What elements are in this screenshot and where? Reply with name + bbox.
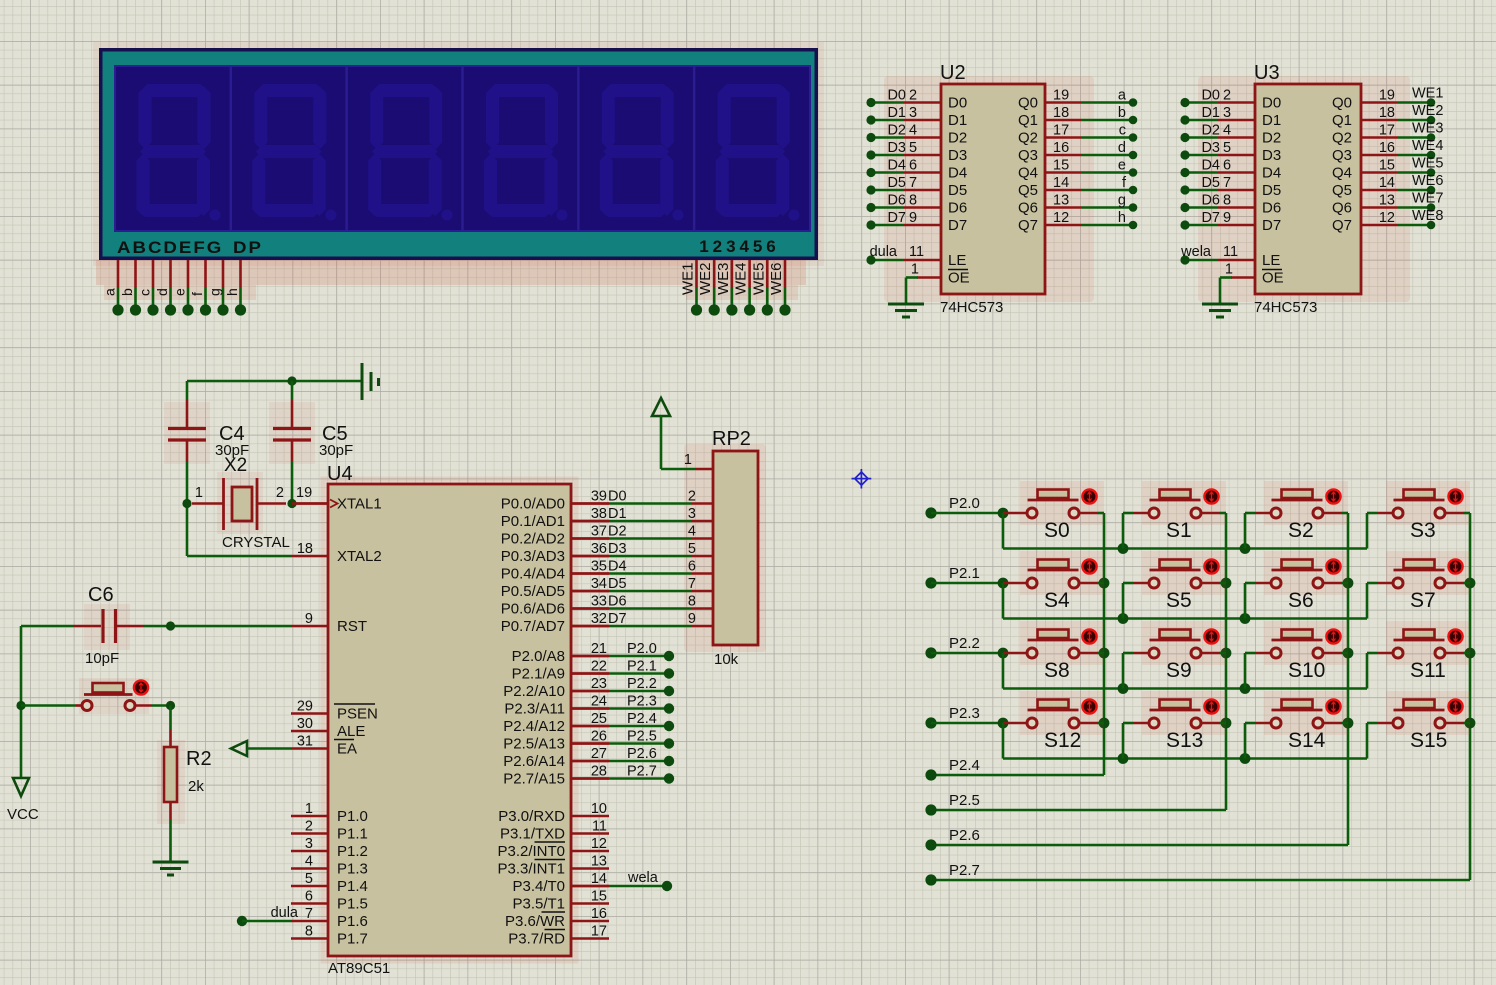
svg-text:1: 1 [305,801,313,817]
wire bus D5 : U4 P0.5 to RP2 pin 7 [571,590,609,593]
svg-text:RST: RST [337,618,367,635]
display common pin WE1 [695,260,698,288]
latch U3 74HC573 [1255,84,1361,294]
push button S13 [1142,691,1226,735]
svg-text:wela: wela [627,870,659,886]
capacitor C4 30pF [186,381,189,400]
junction keypad row 0 riser [1240,543,1251,554]
svg-text:D7: D7 [1201,210,1220,226]
ground symbol under U3 [1202,303,1238,306]
display segment pin f [204,260,207,288]
junction keypad row 3 riser [1240,753,1251,764]
U3 pin Q2 (pin 17) [1361,136,1397,139]
svg-text:P1.7: P1.7 [337,931,368,948]
svg-text:a: a [102,288,118,296]
push button S11 [1386,621,1470,665]
push button S3 [1386,481,1470,525]
junction keypad column 1 [1221,718,1232,729]
push button S14 [1264,691,1348,735]
svg-text:7: 7 [688,576,696,592]
svg-text:13: 13 [1379,193,1395,209]
U2 pin Q1 (pin 18) [1045,119,1081,122]
svg-text:WE3: WE3 [715,262,732,295]
display common pin WE4 [748,260,751,288]
svg-text:P0.0/AD0: P0.0/AD0 [501,496,565,513]
display digit 6 ghost segments [716,84,800,221]
svg-text:WE7: WE7 [1412,191,1443,207]
U2 pin D2 (pin 4) with net D2 [904,136,941,139]
U4 pin P1.0 (1) [291,815,328,818]
svg-text:D0: D0 [1262,95,1281,112]
svg-text:D1: D1 [948,112,967,129]
capacitor C6 10pF [73,625,101,628]
svg-text:P3.1/TXD: P3.1/TXD [500,826,565,843]
svg-text:WE1: WE1 [680,262,697,295]
svg-text:D4: D4 [887,158,906,174]
resistor pack RP2 10k [713,451,758,645]
svg-text:26: 26 [591,729,607,745]
svg-text:11: 11 [909,244,924,260]
junction keypad column 3 [1465,718,1476,729]
svg-text:WE2: WE2 [697,262,714,295]
U3 pin D0 (pin 2) with net D0 [1218,101,1255,104]
U4 pin P0.6/AD6 (33) [571,607,609,610]
svg-text:6: 6 [766,237,775,256]
U4 pin P1.2 (3) [291,850,328,853]
wire bus D3 : U4 P0.3 to RP2 pin 5 [571,555,609,558]
wire keypad column 0 to P2.4 [1103,513,1106,775]
U4 pin P1.4 (5) [291,885,328,888]
U2 pin Q5 (pin 14) [1045,189,1081,192]
svg-text:D2: D2 [887,123,906,139]
U4 pin P2.3/A11 (24) [571,707,609,710]
U2 pin Q0 (pin 19) [1045,101,1081,104]
U3 pin Q1 (pin 18) [1361,119,1397,122]
U2 pin Q6 (pin 13) [1045,206,1081,209]
svg-text:P2.2: P2.2 [627,676,657,692]
svg-text:4: 4 [305,854,313,870]
svg-text:XTAL2: XTAL2 [337,548,382,565]
wire bus D0 : U4 P0.0 to RP2 pin 2 [571,502,609,505]
svg-text:WE5: WE5 [750,262,767,295]
wire net P2.3 at U4 [571,707,609,710]
svg-text:5: 5 [753,237,762,256]
U2 pin Q2 (pin 17) [1045,136,1081,139]
svg-text:a: a [1118,88,1127,104]
svg-text:WE1: WE1 [1412,86,1443,102]
svg-text:P1.5: P1.5 [337,896,368,913]
svg-text:P0.1/AD1: P0.1/AD1 [501,513,565,530]
svg-text:38: 38 [591,506,607,522]
svg-text:h: h [224,288,240,296]
input terminal arrow on EA [231,741,247,756]
power terminal arrow (pin 1) [652,398,670,416]
svg-text:P0.2/AD2: P0.2/AD2 [501,531,565,548]
svg-text:5: 5 [909,140,917,156]
svg-text:RP2: RP2 [712,428,751,450]
halo U4 [323,479,576,961]
wire keypad row 3 [931,722,1003,725]
svg-text:1: 1 [911,262,919,278]
junction keypad column 1 [1221,648,1232,659]
wire dula to P1.6 [237,916,247,926]
U4 pin P3.6/WR (16) [571,920,609,923]
svg-text:9: 9 [688,611,696,627]
svg-text:CRYSTAL: CRYSTAL [222,534,290,551]
junction reset button left [16,701,25,710]
svg-text:D2: D2 [1262,130,1281,147]
svg-text:P2.0: P2.0 [627,641,657,657]
svg-text:10k: 10k [714,651,739,668]
svg-text:3: 3 [726,237,735,256]
svg-text:7: 7 [1223,175,1231,191]
svg-text:Q0: Q0 [1332,95,1352,112]
U2 pin D0 (pin 2) with net D0 [904,101,941,104]
svg-text:b: b [1118,105,1126,121]
U2 pin Q3 (pin 16) [1045,154,1081,157]
push button S2 [1264,481,1348,525]
svg-text:D0: D0 [948,95,967,112]
display segment pin d [169,260,172,288]
wire net P2.7 at U4 [571,777,609,780]
U2 pin Q4 (pin 15) [1045,171,1081,174]
wire keypad column 3 to P2.7 [1469,513,1472,880]
origin marker [852,469,872,489]
svg-text:Q1: Q1 [1332,112,1352,129]
display digit 4 ghost segments [484,84,568,221]
svg-text:P2.1/A9: P2.1/A9 [512,666,565,683]
display digit separator 2 [345,67,347,230]
svg-text:P0.3/AD3: P0.3/AD3 [501,548,565,565]
svg-text:12: 12 [1053,210,1069,226]
svg-text:Q7: Q7 [1018,217,1038,234]
svg-text:18: 18 [1053,105,1069,121]
svg-text:Q2: Q2 [1332,130,1352,147]
U4 pin EA (31) [291,747,328,750]
svg-text:D6: D6 [608,594,627,610]
svg-text:2: 2 [305,819,313,835]
svg-text:g: g [1118,193,1126,209]
power terminal VCC [13,778,29,796]
wire crystal top rail [187,380,362,383]
display segment pin g [222,260,225,288]
svg-text:PSEN: PSEN [337,706,378,723]
U4 pin RST (9) [291,625,328,628]
wire keypad row 0 [931,512,1003,515]
svg-text:4: 4 [739,237,749,256]
wire EA [247,747,291,750]
svg-text:S15: S15 [1410,729,1447,752]
svg-text:6: 6 [688,559,696,575]
svg-text:13: 13 [591,854,607,870]
svg-text:c: c [1119,123,1126,139]
U3 pin D3 (pin 5) with net D3 [1218,154,1255,157]
svg-text:ABCDEFG: ABCDEFG [117,238,223,257]
svg-text:34: 34 [591,576,607,592]
svg-text:D6: D6 [948,200,967,217]
svg-text:37: 37 [591,524,607,540]
wire RP2 pin 1 [660,416,663,469]
wire net P2.6 at U4 [571,760,609,763]
svg-text:Q5: Q5 [1332,182,1352,199]
svg-text:8: 8 [909,193,917,209]
display digit separator 1 [230,67,232,230]
svg-text:Q3: Q3 [1332,147,1352,164]
U2 pin D4 (pin 6) with net D4 [904,171,941,174]
U3 pin Q0 (pin 19) [1361,101,1397,104]
svg-text:2: 2 [1223,88,1231,104]
push button S7 [1386,551,1470,595]
svg-text:36: 36 [591,541,607,557]
wire bus D2 : U4 P0.2 to RP2 pin 4 [571,537,609,540]
svg-text:2k: 2k [188,778,204,795]
svg-text:P2.4/A12: P2.4/A12 [503,718,565,735]
svg-text:2: 2 [713,237,722,256]
svg-text:D2: D2 [1201,123,1220,139]
display segment pin b [134,260,137,288]
svg-text:D6: D6 [1201,193,1220,209]
svg-text:Q6: Q6 [1018,200,1038,217]
svg-text:Q7: Q7 [1332,217,1352,234]
svg-text:15: 15 [591,889,607,905]
svg-text:D5: D5 [1262,182,1281,199]
svg-text:1: 1 [195,485,203,501]
svg-text:16: 16 [591,906,607,922]
svg-text:c: c [137,289,153,296]
svg-text:4: 4 [1223,123,1231,139]
svg-text:S10: S10 [1288,659,1325,682]
junction keypad column 3 [1465,578,1476,589]
U3 pin D2 (pin 4) with net D2 [1218,136,1255,139]
ground symbol crystal (rotated) [361,363,364,400]
U3 pin Q4 (pin 15) [1361,171,1397,174]
svg-text:P1.0: P1.0 [337,808,368,825]
svg-text:e: e [172,288,188,296]
junction keypad column 2 [1343,578,1354,589]
display common pin WE6 [784,260,787,288]
junction keypad column 3 [1465,648,1476,659]
U4 pin P3.1/TXD (11) [571,832,609,835]
svg-text:WE5: WE5 [1412,156,1443,172]
svg-text:S0: S0 [1044,519,1070,542]
svg-text:U2: U2 [940,62,966,84]
terminal P2.7 [925,874,936,885]
U4 pin P3.2/INT0 (12) [571,850,609,853]
push button S15 [1386,691,1470,735]
svg-text:D4: D4 [1262,165,1281,182]
svg-text:14: 14 [1053,175,1069,191]
svg-text:16: 16 [1379,140,1395,156]
wire bus D1 : U4 P0.1 to RP2 pin 3 [571,520,609,523]
push button S9 [1142,621,1226,665]
display digit separator 5 [693,67,695,230]
wire RST rail [144,625,291,628]
svg-text:2: 2 [909,88,917,104]
svg-text:16: 16 [1053,140,1069,156]
junction XTAL1 node left [182,499,191,508]
svg-text:19: 19 [1053,88,1069,104]
svg-text:P2.6/A14: P2.6/A14 [503,753,565,770]
svg-text:14: 14 [1379,175,1395,191]
svg-text:15: 15 [1053,158,1069,174]
svg-text:74HC573: 74HC573 [940,299,1003,316]
U4 pin P3.3/INT1 (13) [571,867,609,870]
svg-text:D5: D5 [608,576,627,592]
svg-text:P2.3: P2.3 [627,694,657,710]
U4 pin XTAL1 (19) [291,502,328,505]
svg-text:Q4: Q4 [1018,165,1038,182]
wire XTAL2 [187,555,291,558]
push button S10 [1264,621,1348,665]
svg-text:D4: D4 [1201,158,1220,174]
svg-text:P2.2/A10: P2.2/A10 [503,683,565,700]
svg-text:P2.5/A13: P2.5/A13 [503,736,565,753]
svg-text:wela: wela [1180,244,1212,260]
svg-text:LE: LE [948,252,966,269]
halo C4 C5 X2 C6 R2 [164,402,210,464]
svg-text:VCC: VCC [7,806,39,823]
U3 pin Q3 (pin 16) [1361,154,1397,157]
svg-text:P2.7: P2.7 [627,764,657,780]
svg-text:3: 3 [305,836,313,852]
terminal P2.6 [925,839,936,850]
push button S6 [1264,551,1348,595]
U3 pin LE (pin 11) net wela [1218,259,1255,262]
U4 pin P0.1/AD1 (38) [571,520,609,523]
U3 pin OE (pin 1) [1231,276,1255,279]
svg-text:2: 2 [276,485,284,501]
svg-text:25: 25 [591,711,607,727]
svg-text:P3.0/RXD: P3.0/RXD [498,808,565,825]
wire bus D6 : U4 P0.6 to RP2 pin 8 [571,607,609,610]
halo display [93,42,824,266]
junction keypad row 2 riser [1240,683,1251,694]
svg-text:WE6: WE6 [1412,173,1443,189]
svg-text:X2: X2 [224,455,247,476]
U4 pin ALE (30) [291,730,328,733]
U4 pin PSEN (29) [291,712,328,715]
junction crystal top [287,376,296,385]
U4 pin P3.7/RD (17) [571,937,609,940]
svg-text:Q5: Q5 [1018,182,1038,199]
svg-text:D4: D4 [608,559,627,575]
svg-text:Q3: Q3 [1018,147,1038,164]
svg-text:D3: D3 [1262,147,1281,164]
display common pin WE3 [731,260,734,288]
svg-text:P2.4: P2.4 [949,757,980,774]
U4 pin P1.1 (2) [291,832,328,835]
svg-text:P2.0/A8: P2.0/A8 [512,648,565,665]
svg-text:21: 21 [591,641,607,657]
svg-text:WE2: WE2 [1412,103,1443,119]
svg-text:b: b [119,288,135,296]
svg-text:g: g [207,288,223,296]
svg-text:D7: D7 [948,217,967,234]
svg-text:P3.2/INT0: P3.2/INT0 [497,843,565,860]
svg-text:R2: R2 [186,748,212,770]
junction keypad column 2 [1343,718,1354,729]
terminal P2.1 (keypad row 1) [925,577,936,588]
halo RP2 [684,444,766,652]
U2 pin OE (pin 1) [917,276,941,279]
svg-text:D1: D1 [1262,112,1281,129]
svg-text:P2.1: P2.1 [949,565,980,582]
svg-text:S8: S8 [1044,659,1070,682]
svg-text:P0.4/AD4: P0.4/AD4 [501,566,565,583]
svg-text:D6: D6 [1262,200,1281,217]
svg-text:S5: S5 [1166,589,1192,612]
svg-text:d: d [1118,140,1126,156]
svg-text:f: f [189,292,205,296]
svg-text:8: 8 [305,924,313,940]
display digit separator 4 [577,67,579,230]
svg-text:12: 12 [1379,210,1395,226]
svg-text:P0.5/AD5: P0.5/AD5 [501,583,565,600]
U4 pin P0.7/AD7 (32) [571,625,609,628]
svg-text:22: 22 [591,659,607,675]
push button S8 [1020,621,1104,665]
terminal P2.5 [925,804,936,815]
U4 pin P2.5/A13 (26) [571,742,609,745]
svg-text:D0: D0 [1201,88,1220,104]
U4 pin P0.3/AD3 (36) [571,555,609,558]
wire net P2.4 at U4 [571,725,609,728]
svg-text:D0: D0 [887,88,906,104]
svg-text:WE6: WE6 [768,262,785,295]
svg-text:D2: D2 [608,524,627,540]
wire keypad column 2 to P2.6 [1347,513,1350,845]
svg-text:S13: S13 [1166,729,1203,752]
U3 pin Q6 (pin 13) [1361,206,1397,209]
svg-text:Q4: Q4 [1332,165,1352,182]
svg-text:7: 7 [305,906,313,922]
wire keypad row 2 [931,652,1003,655]
svg-text:S7: S7 [1410,589,1436,612]
svg-text:D1: D1 [887,105,906,121]
svg-text:D4: D4 [948,165,967,182]
svg-text:WE8: WE8 [1412,208,1443,224]
svg-text:27: 27 [591,746,607,762]
svg-text:6: 6 [909,158,917,174]
svg-text:3: 3 [1223,105,1231,121]
svg-text:d: d [154,288,170,296]
U2 pin D1 (pin 3) with net D1 [904,119,941,122]
svg-text:P2.7/A15: P2.7/A15 [503,771,565,788]
push button S1 [1142,481,1226,525]
svg-text:P2.2: P2.2 [949,635,980,652]
svg-text:14: 14 [591,871,607,887]
junction keypad column 1 [1221,578,1232,589]
U4 pin P2.1/A9 (22) [571,672,609,675]
display digit separator 3 [461,67,463,230]
U2 pin LE (pin 11) net dula [904,259,941,262]
push button S12 [1020,691,1104,735]
svg-text:S3: S3 [1410,519,1436,542]
U3 pin D5 (pin 7) with net D5 [1218,189,1255,192]
wire bus D7 : U4 P0.7 to RP2 pin 9 [571,625,609,628]
halo U2 [884,76,1094,302]
svg-text:P1.2: P1.2 [337,843,368,860]
U4 pin P0.0/AD0 (39) [571,502,609,505]
svg-text:D3: D3 [948,147,967,164]
U2 pin D6 (pin 8) with net D6 [904,206,941,209]
svg-text:2: 2 [688,489,696,505]
svg-text:WE3: WE3 [1412,121,1443,137]
junction RST [166,621,175,630]
svg-text:30: 30 [297,716,313,732]
svg-text:Q6: Q6 [1332,200,1352,217]
svg-text:D7: D7 [887,210,906,226]
